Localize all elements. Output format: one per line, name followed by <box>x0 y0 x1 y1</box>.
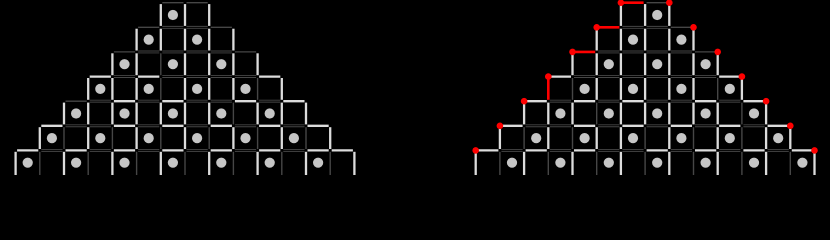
wire left pyramid edge h1 col6 dark <box>162 25 183 27</box>
wire left pyramid edge v9 row3 white <box>232 53 234 75</box>
wire left pyramid edge v8 row3 white <box>208 53 210 75</box>
wire left pyramid edge h2 col7 dark <box>187 50 208 52</box>
wire right pyramid edge h5 col12 white <box>768 125 789 127</box>
node left dot cell r4c3 <box>95 84 105 94</box>
wire left pyramid edge v9 row7 dark <box>232 152 234 175</box>
node left dot cell r6c1 <box>47 133 57 143</box>
wire right pyramid edge v2 row7 white <box>523 152 525 175</box>
wire left pyramid edge v9 row2 white <box>232 29 234 51</box>
wire left pyramid edge h2 col9 dark <box>235 51 256 53</box>
wire right pyramid edge v6 row7 white <box>620 152 622 175</box>
wire right pyramid edge v7 row6 dark <box>644 127 646 149</box>
wire left pyramid edge h6 col12 white <box>308 149 329 151</box>
wire right pyramid edge h4 col3 dark <box>550 99 571 101</box>
wire right pyramid edge v6 row1 white <box>620 4 622 26</box>
wire right pyramid edge h6 col8 dark <box>671 148 692 150</box>
node right dot cell r7c5 <box>604 158 614 168</box>
node left dot cell r4c9 <box>240 84 250 94</box>
wire left pyramid edge h3 col9 dark <box>235 75 256 77</box>
node red corner left slope row7 <box>472 147 479 154</box>
wire right pyramid edge v11 row7 dark <box>741 152 743 175</box>
wire left pyramid edge v11 row6 white <box>281 127 283 149</box>
wire right pyramid edge v10 row7 white <box>717 152 719 175</box>
node right dot cell r7c13 <box>797 158 807 168</box>
node right dot cell r7c3 <box>555 158 565 168</box>
wire left pyramid edge v4 row7 white <box>111 152 113 175</box>
wire left pyramid edge v3 row7 dark <box>87 152 89 175</box>
wire right pyramid edge v9 row5 white <box>692 103 694 125</box>
wire left pyramid edge v9 row5 dark <box>232 103 234 125</box>
wire right pyramid edge v4 row7 white <box>571 152 573 175</box>
wire right pyramid edge h5 col1 white <box>501 125 522 127</box>
wire right pyramid edge v3 row7 dark <box>547 152 549 175</box>
wire right pyramid edge v4 row6 dark <box>572 127 574 149</box>
wire left pyramid edge h3 col7 dark <box>187 75 208 77</box>
wire right pyramid edge v10 row4 dark <box>717 78 719 100</box>
wire left pyramid edge v1 row6 white <box>39 127 41 149</box>
wire left pyramid edge v6 row4 dark <box>160 78 162 100</box>
wire right pyramid edge v12 row7 white <box>765 152 767 175</box>
wire right pyramid edge h2 col9 dark <box>695 51 716 53</box>
wire left pyramid edge h4 col11 white <box>283 100 304 102</box>
wire right pyramid edge v6 row3 white <box>620 53 622 75</box>
node red corner right slope row7 <box>811 147 818 154</box>
wire right pyramid edge v7 row1 white <box>644 4 646 26</box>
wire left pyramid edge v7 row5 white <box>184 103 186 125</box>
node left dot cell r5c4 <box>119 108 129 118</box>
wire left pyramid edge v3 row6 white <box>87 127 89 149</box>
wire left pyramid edge v6 row3 dark <box>160 53 162 75</box>
wire left pyramid edge v9 row6 white <box>232 127 234 149</box>
wire left pyramid edge v8 row7 white <box>208 152 210 175</box>
wire right pyramid edge h5 col5 dark <box>598 124 619 126</box>
wire left pyramid edge h3 col6 dark <box>162 75 183 77</box>
wire left pyramid edge v6 row5 white <box>160 103 162 125</box>
node left dot cell r7c6 <box>168 158 178 168</box>
wire right pyramid edge h5 col8 white <box>671 125 692 127</box>
wire right pyramid edge h6 col3 dark <box>550 148 571 150</box>
node right dot cell r5c3 <box>555 108 565 118</box>
wire left pyramid edge v4 row3 white <box>111 53 113 75</box>
wire left pyramid edge h5 col3 dark <box>90 124 111 126</box>
node red corner left slope row1 <box>618 0 625 6</box>
wire left pyramid edge v2 row6 dark <box>63 127 65 149</box>
wire left pyramid edge h3 col10 white <box>259 75 280 77</box>
wire right pyramid edge h4 col4 white <box>574 100 595 102</box>
wire left pyramid edge v12 row5 white <box>305 103 307 125</box>
wire left pyramid edge v5 row5 white <box>135 103 137 125</box>
wire right pyramid edge h4 col2 white <box>526 100 547 102</box>
wire left pyramid edge v0 row7 white <box>14 152 16 175</box>
wire left pyramid edge v8 row4 white <box>208 78 210 100</box>
wire left pyramid edge h6 col2 white <box>66 149 87 151</box>
node left dot cell r5c6 <box>168 108 178 118</box>
wire right pyramid edge h4 col9 white <box>695 100 716 102</box>
wire right pyramid edge h5 col11 dark <box>743 124 764 126</box>
wire left pyramid edge v2 row5 white <box>63 103 65 125</box>
wire right pyramid edge h6 col13 white <box>792 149 813 151</box>
wire left pyramid edge h4 col4 white <box>114 100 135 102</box>
wire right pyramid edge v2 row5 white <box>523 103 525 125</box>
wire right pyramid edge h1 col6 dark <box>622 25 643 27</box>
node left dot cell r7c0 <box>23 158 33 168</box>
wire left pyramid edge h4 col8 dark <box>211 99 232 101</box>
wire left pyramid edge h6 col9 dark <box>235 148 256 150</box>
wire left pyramid edge h6 col1 dark <box>41 148 62 150</box>
wire left pyramid edge h5 col4 white <box>114 125 135 127</box>
wire right pyramid edge v9 row6 dark <box>693 127 695 149</box>
wire right pyramid edge v14 row7 white <box>813 152 815 175</box>
wire right pyramid edge v9 row2 white <box>692 29 694 51</box>
wire right pyramid edge v7 row7 dark <box>644 152 646 175</box>
wire right pyramid edge v1 row7 dark <box>499 152 501 175</box>
wire left pyramid edge v5 row6 white <box>135 127 137 149</box>
wire right pyramid edge h3 col3 white <box>550 75 571 77</box>
wire left pyramid edge h6 col10 white <box>259 149 280 151</box>
node left dot cell r2c7 <box>192 35 202 45</box>
node right dot cell r6c10 <box>725 133 735 143</box>
wire left pyramid edge h4 col7 dark <box>187 99 208 101</box>
wire left pyramid edge v13 row7 dark <box>329 152 331 175</box>
wire left pyramid edge h4 col5 dark <box>138 99 159 101</box>
wire left pyramid edge v5 row7 dark <box>136 152 138 175</box>
wire left pyramid edge h3 col8 dark <box>211 75 232 77</box>
wire left pyramid edge v7 row2 white <box>184 29 186 51</box>
wire left pyramid edge v7 row4 white <box>184 78 186 100</box>
wire right pyramid edge h5 col7 dark <box>647 124 668 126</box>
node right dot cell r1c7 <box>652 10 662 20</box>
wire right pyramid edge h5 col2 dark <box>526 124 547 126</box>
node left dot cell r7c8 <box>216 158 226 168</box>
node left dot cell r3c8 <box>216 59 226 69</box>
wire left pyramid edge h6 col6 white <box>162 149 183 151</box>
wire right pyramid edge h6 col1 dark <box>501 148 522 150</box>
wire left pyramid edge v10 row7 white <box>256 152 258 175</box>
node left dot cell r6c5 <box>144 133 154 143</box>
node red corner left slope row5 <box>521 98 528 105</box>
wire left pyramid edge v6 row2 white <box>160 29 162 51</box>
node right dot cell r5c5 <box>604 108 614 118</box>
wire left pyramid edge h5 col5 dark <box>138 124 159 126</box>
wire left pyramid edge v8 row5 white <box>208 103 210 125</box>
node red corner right slope row6 <box>787 123 794 130</box>
wire left pyramid edge h5 col9 dark <box>235 124 256 126</box>
wire left pyramid edge v11 row5 white <box>281 103 283 125</box>
node red corner right slope row2 <box>690 24 697 31</box>
wire right pyramid edge v8 row2 white <box>668 29 670 51</box>
wire left pyramid edge v8 row6 dark <box>208 127 210 149</box>
wire right pyramid edge h6 col5 dark <box>598 148 619 150</box>
wire right pyramid edge h2 col5 dark <box>598 50 619 52</box>
wire right pyramid edge v12 row6 white <box>765 127 767 149</box>
wire right pyramid edge h4 col11 white <box>743 100 764 102</box>
wire left pyramid edge h1 col7 dark <box>187 25 208 27</box>
node left dot cell r7c4 <box>119 158 129 168</box>
node left dot cell r5c8 <box>216 108 226 118</box>
wire right pyramid edge v0 row7 white <box>475 152 477 175</box>
wire right pyramid edge h1 col5 red <box>598 26 619 29</box>
wire left pyramid edge h0 col6 dark <box>162 2 183 4</box>
wire right pyramid edge v11 row4 white <box>741 78 743 100</box>
wire right pyramid edge h0 col7 dark <box>647 2 668 4</box>
wire right pyramid edge v8 row1 white <box>668 4 670 26</box>
wire right pyramid edge v5 row3 white <box>596 53 598 75</box>
wire left pyramid edge v3 row4 white <box>87 78 89 100</box>
wire right pyramid edge v13 row6 white <box>789 127 791 149</box>
wire left pyramid edge h5 col10 white <box>259 125 280 127</box>
node left dot cell r5c2 <box>71 108 81 118</box>
wire left pyramid edge v7 row1 white <box>184 4 186 26</box>
wire right pyramid edge v5 row5 dark <box>596 103 598 125</box>
wire left pyramid edge h5 col12 white <box>308 125 329 127</box>
wire left pyramid edge v6 row6 dark <box>160 127 162 149</box>
wire right pyramid edge h1 col8 dark <box>671 26 692 28</box>
node right dot cell r2c8 <box>676 35 686 45</box>
wire right pyramid edge v5 row7 dark <box>596 152 598 175</box>
wire left pyramid edge h2 col8 dark <box>211 50 232 52</box>
wire left pyramid edge v12 row6 dark <box>305 127 307 149</box>
wire right pyramid edge v7 row3 white <box>644 53 646 75</box>
wire right pyramid edge v2 row6 dark <box>523 127 525 149</box>
wire right pyramid edge h0 col6 red <box>622 1 643 4</box>
wire left pyramid edge h3 col4 dark <box>114 75 135 77</box>
wire right pyramid edge h3 col8 dark <box>671 75 692 77</box>
wire right pyramid edge v6 row2 white <box>620 29 622 51</box>
wire right pyramid edge v9 row3 white <box>692 53 694 75</box>
wire left pyramid edge h6 col0 white <box>17 149 38 151</box>
wire right pyramid edge v13 row7 dark <box>789 152 791 175</box>
wire left pyramid edge v5 row3 white <box>135 53 137 75</box>
wire left pyramid edge h5 col11 dark <box>283 124 304 126</box>
wire right pyramid edge h2 col4 red <box>574 51 595 54</box>
node right dot cell r6c12 <box>773 133 783 143</box>
node left dot cell r1c6 <box>168 10 178 20</box>
node right dot cell r3c7 <box>652 59 662 69</box>
wire right pyramid edge v3 row6 white <box>547 127 549 149</box>
wire left pyramid edge v4 row6 dark <box>111 127 113 149</box>
wire right pyramid edge h4 col6 white <box>622 100 643 102</box>
wire right pyramid edge v5 row6 white <box>596 127 598 149</box>
wire left pyramid edge h5 col2 dark <box>66 124 87 126</box>
node left dot cell r4c7 <box>192 84 202 94</box>
wire right pyramid edge h4 col5 dark <box>598 99 619 101</box>
wire left pyramid edge h4 col9 white <box>235 100 256 102</box>
wire left pyramid edge h5 col1 white <box>41 125 62 127</box>
wire right pyramid edge h4 col7 dark <box>647 99 668 101</box>
wire right pyramid edge h5 col10 white <box>719 125 740 127</box>
wire left pyramid edge h1 col8 dark <box>211 26 232 28</box>
wire left pyramid edge v14 row7 white <box>353 152 355 175</box>
wire left pyramid edge v11 row7 dark <box>281 152 283 175</box>
node right dot cell r6c4 <box>580 133 590 143</box>
wire right pyramid edge h3 col7 dark <box>647 75 668 77</box>
node right dot cell r6c8 <box>676 133 686 143</box>
node left dot cell r2c5 <box>144 35 154 45</box>
wire right pyramid edge h2 col8 dark <box>671 50 692 52</box>
wire left pyramid edge h6 col13 white <box>332 149 353 151</box>
wire left pyramid edge v5 row2 white <box>135 29 137 51</box>
wire left pyramid edge h0 col7 dark <box>187 2 208 4</box>
wire left pyramid edge v7 row7 dark <box>184 152 186 175</box>
wire right pyramid edge h3 col6 dark <box>622 75 643 77</box>
wire right pyramid edge h6 col12 dark <box>768 148 789 150</box>
wire left pyramid edge h6 col8 white <box>211 149 232 151</box>
wire left pyramid edge h2 col4 dark <box>114 51 135 53</box>
wire right pyramid edge v4 row4 dark <box>572 78 574 100</box>
wire left pyramid edge v10 row6 dark <box>257 127 259 149</box>
wire left pyramid edge v5 row4 white <box>135 78 137 100</box>
wire right pyramid edge h6 col2 white <box>526 149 547 151</box>
wire right pyramid edge h3 col10 white <box>719 75 740 77</box>
wire right pyramid edge v9 row7 dark <box>693 152 695 175</box>
wire right pyramid edge h6 col7 white <box>647 149 668 151</box>
wire right pyramid edge h5 col9 dark <box>695 124 716 126</box>
wire left pyramid edge v7 row6 white <box>184 127 186 149</box>
wire right pyramid edge v1 row6 white <box>499 127 501 149</box>
wire left pyramid edge v6 row1 white <box>160 4 162 26</box>
wire right pyramid edge h3 col5 dark <box>598 75 619 77</box>
node right dot cell r4c6 <box>628 84 638 94</box>
wire left pyramid edge v10 row5 white <box>256 103 258 125</box>
wire right pyramid edge h1 col7 dark <box>647 25 668 27</box>
wire left pyramid edge v10 row3 white <box>256 53 258 75</box>
wire left pyramid edge h4 col6 white <box>162 100 183 102</box>
wire left pyramid edge h6 col3 dark <box>90 148 111 150</box>
node left dot cell r6c3 <box>95 133 105 143</box>
node red corner right slope row5 <box>763 98 770 105</box>
node left dot cell r6c11 <box>289 133 299 143</box>
wire right pyramid edge h6 col9 white <box>695 149 716 151</box>
wire right pyramid edge h3 col4 dark <box>574 75 595 77</box>
node red corner left slope row6 <box>497 123 504 130</box>
wire right pyramid edge v8 row4 white <box>668 78 670 100</box>
wire right pyramid edge v7 row2 white <box>644 29 646 51</box>
wire right pyramid edge v4 row5 white <box>571 103 573 125</box>
node left dot cell r3c6 <box>168 59 178 69</box>
node left dot cell r7c10 <box>265 158 275 168</box>
node left dot cell r7c2 <box>71 158 81 168</box>
wire right pyramid edge v8 row6 white <box>668 127 670 149</box>
wire left pyramid edge v11 row4 white <box>281 78 283 100</box>
node left dot cell r5c10 <box>265 108 275 118</box>
wire right pyramid edge v8 row5 white <box>668 103 670 125</box>
wire right pyramid edge h6 col4 white <box>574 149 595 151</box>
wire right pyramid edge v8 row3 white <box>668 53 670 75</box>
wire right pyramid edge v3 row5 white <box>547 103 549 125</box>
wire right pyramid edge h6 col6 dark <box>622 148 643 150</box>
wire left pyramid edge h6 col5 dark <box>138 148 159 150</box>
node right dot cell r6c6 <box>628 133 638 143</box>
wire right pyramid edge v10 row3 white <box>717 53 719 75</box>
wire right pyramid edge h2 col7 dark <box>647 50 668 52</box>
wire left pyramid edge h6 col4 white <box>114 149 135 151</box>
wire right pyramid edge h6 col11 white <box>743 149 764 151</box>
wire right pyramid edge h5 col6 white <box>622 125 643 127</box>
node left dot cell r3c4 <box>119 59 129 69</box>
node red corner right slope row3 <box>714 49 721 56</box>
wire left pyramid edge v8 row1 white <box>208 4 210 26</box>
node left dot cell r6c7 <box>192 133 202 143</box>
node right dot cell r3c9 <box>701 59 711 69</box>
node right dot cell r5c7 <box>652 108 662 118</box>
wire right pyramid edge h6 col0 white <box>477 149 498 151</box>
wire right pyramid edge h6 col10 dark <box>719 148 740 150</box>
node right dot cell r7c1 <box>507 158 517 168</box>
wire left pyramid edge v4 row4 white <box>111 78 113 100</box>
wire left pyramid edge v7 row3 white <box>184 53 186 75</box>
wire left pyramid edge h1 col5 dark <box>138 26 159 28</box>
wire right pyramid edge h5 col4 white <box>574 125 595 127</box>
node right dot cell r4c10 <box>725 84 735 94</box>
wire right pyramid edge v11 row5 dark <box>741 103 743 125</box>
wire left pyramid edge v13 row6 white <box>329 127 331 149</box>
node left dot cell r4c5 <box>144 84 154 94</box>
wire right pyramid edge v6 row5 white <box>620 103 622 125</box>
wire right pyramid edge v3 row4 red <box>547 78 550 100</box>
node left dot cell r7c12 <box>313 158 323 168</box>
wire right pyramid edge v11 row6 dark <box>741 127 743 149</box>
wire right pyramid edge h4 col10 dark <box>719 99 740 101</box>
wire right pyramid edge v10 row6 white <box>717 127 719 149</box>
node red corner right slope row1 <box>666 0 673 6</box>
right pyramid <box>472 0 817 175</box>
wire right pyramid edge h5 col3 dark <box>550 124 571 126</box>
wire left pyramid edge h5 col7 dark <box>187 124 208 126</box>
wire left pyramid edge v4 row5 white <box>111 103 113 125</box>
wire left pyramid edge h4 col10 dark <box>259 99 280 101</box>
node red corner left slope row4 <box>545 73 552 80</box>
wire left pyramid edge v2 row7 white <box>63 152 65 175</box>
node red corner right slope row4 <box>739 73 746 80</box>
wire left pyramid edge h5 col6 white <box>162 125 183 127</box>
node red corner left slope row3 <box>569 49 576 56</box>
node right dot cell r6c2 <box>531 133 541 143</box>
wire right pyramid edge v10 row5 white <box>717 103 719 125</box>
node right dot cell r7c7 <box>652 158 662 168</box>
node right dot cell r3c5 <box>604 59 614 69</box>
wire right pyramid edge h2 col6 dark <box>622 50 643 52</box>
node left dot cell r6c9 <box>240 133 250 143</box>
wire left pyramid edge v3 row5 white <box>87 103 89 125</box>
wire left pyramid edge h2 col5 dark <box>138 50 159 52</box>
node right dot cell r7c11 <box>749 158 759 168</box>
node right dot cell r4c4 <box>580 84 590 94</box>
wire right pyramid edge v4 row3 white <box>571 53 573 75</box>
wire left pyramid edge h6 col7 dark <box>187 148 208 150</box>
wire right pyramid edge h4 col8 dark <box>671 99 692 101</box>
wire left pyramid edge v6 row7 white <box>160 152 162 175</box>
wire left pyramid edge h5 col8 white <box>211 125 232 127</box>
wire right pyramid edge v7 row5 white <box>644 103 646 125</box>
wire right pyramid edge v6 row6 white <box>620 127 622 149</box>
node red corner left slope row2 <box>593 24 600 31</box>
node right dot cell r4c8 <box>676 84 686 94</box>
wire left pyramid edge h4 col2 dark <box>66 100 87 102</box>
wire left pyramid edge h3 col5 white <box>138 75 159 77</box>
wire right pyramid edge v5 row4 white <box>596 78 598 100</box>
wire left pyramid edge h3 col3 white <box>90 75 111 77</box>
wire left pyramid edge h4 col3 dark <box>90 99 111 101</box>
wire left pyramid edge v8 row2 white <box>208 29 210 51</box>
wire right pyramid edge v6 row4 white <box>620 78 622 100</box>
node right dot cell r5c9 <box>701 108 711 118</box>
node right dot cell r5c11 <box>749 108 759 118</box>
wire left pyramid edge h2 col6 dark <box>162 50 183 52</box>
wire left pyramid edge v1 row7 dark <box>39 152 41 175</box>
wire left pyramid edge h6 col11 dark <box>283 148 304 150</box>
wire left pyramid edge v12 row7 white <box>305 152 307 175</box>
wire right pyramid edge v5 row2 white <box>596 29 598 51</box>
